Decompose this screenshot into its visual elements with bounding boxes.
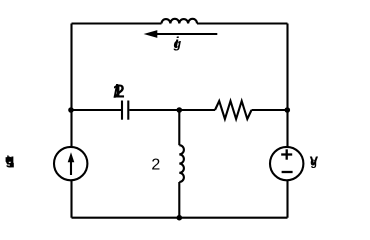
svg-text:2: 2 (115, 82, 125, 102)
svg-text:g: g (173, 37, 182, 51)
svg-text:2: 2 (151, 157, 160, 174)
svg-text:g: g (310, 156, 317, 168)
